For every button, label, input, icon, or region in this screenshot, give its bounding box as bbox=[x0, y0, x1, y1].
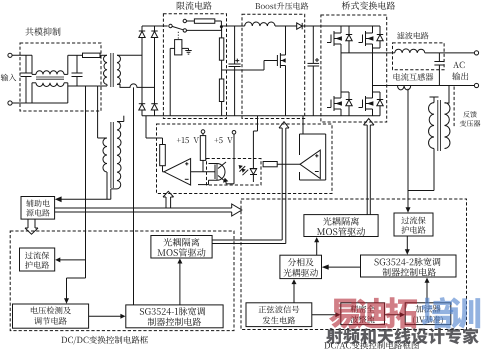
diode D (bridge bottom, x=154.5) bbox=[151, 103, 157, 105]
resistor R4 (divider bottom) bbox=[221, 60, 223, 79]
watermark 培训 bbox=[422, 297, 453, 328]
box SG3524-1 bbox=[126, 305, 223, 328]
wire resistor to transformer bbox=[100, 54, 107, 56]
resistor R6 bbox=[202, 133, 204, 135]
bridge right leg bbox=[372, 26, 374, 33]
capacitor C4 (boost output, polarized) bbox=[312, 26, 314, 63]
arrow 精密 to 加法器 bbox=[385, 314, 402, 316]
filter dashed box bbox=[393, 43, 445, 70]
T2 primary bottom lead bbox=[106, 172, 108, 199]
transformer T2 primary (aux) bbox=[98, 137, 107, 139]
current transformer CT1 bbox=[398, 86, 411, 90]
diode D5 (boost) bbox=[297, 23, 303, 29]
resistor R5 bbox=[145, 116, 147, 138]
bridge right mid node to output bbox=[373, 85, 475, 87]
box 分相及光耦驱动 bbox=[280, 255, 322, 278]
resistor R7 bbox=[263, 162, 277, 167]
diode D6 (body) bbox=[346, 34, 352, 36]
watermark subtitle bbox=[326, 328, 479, 345]
capacitor C3 (boost input, polarized) bbox=[234, 26, 236, 64]
box 正弦波信号发生电路 bbox=[246, 303, 312, 327]
junction dot bbox=[220, 25, 223, 28]
hollow supply arrow (aux to DC/AC) bbox=[55, 207, 232, 209]
AC output terminal top bbox=[474, 51, 478, 55]
label: AC输出 bbox=[453, 62, 464, 68]
CT secondary line down bbox=[407, 89, 409, 210]
optocoupler dashed box bbox=[207, 159, 262, 186]
wire lower contact out bbox=[187, 29, 222, 31]
hollow arrow: MOS drive to boost bbox=[212, 239, 282, 241]
T2 secondary bbox=[117, 122, 121, 189]
capacitor C2 (X-cap right) bbox=[76, 55, 78, 73]
transistor Q5 (bridge MOSFET) bbox=[362, 100, 364, 108]
transistor Q2 (bridge MOSFET) bbox=[330, 35, 332, 43]
arrow 过流保护 to SG3524-2 bbox=[406, 236, 408, 252]
capacitor C5 (filter) bbox=[438, 53, 440, 62]
+15V terminal bbox=[201, 130, 205, 134]
label: DC/AC变换控制电路框图 bbox=[324, 341, 418, 350]
hollow arrow down from aux box bbox=[27, 219, 29, 228]
transistor Q4 (bridge MOSFET) bbox=[330, 100, 332, 108]
wire U2 to bus bbox=[302, 116, 304, 134]
ground symbol bbox=[182, 47, 189, 49]
box 过流保护电路 (DC/DC) bbox=[20, 248, 55, 271]
hollow arrow branch up into driver bbox=[165, 197, 167, 208]
switch upper contact bbox=[183, 19, 186, 22]
diode D (bridge top, x=154.5) bbox=[151, 30, 157, 32]
AC output terminal bottom bbox=[474, 83, 478, 87]
relay link dotted bbox=[177, 32, 179, 40]
arrow SG3524-1 to 光耦隔离 bbox=[179, 262, 181, 305]
box 电压检测及调节电路 bbox=[13, 304, 89, 328]
label: 滤波电路 bbox=[397, 32, 428, 39]
aux power supply box 辅助电源电路 bbox=[21, 197, 55, 220]
wire coil to bottom bus bbox=[170, 47, 174, 49]
diode D7 (body) bbox=[377, 34, 383, 36]
choke core bbox=[36, 76, 64, 78]
bridge dashed box bbox=[321, 15, 387, 122]
T2 core bbox=[110, 122, 112, 188]
hollow arrow: MOS drive to bridge bbox=[366, 125, 368, 215]
bridge left mid node to filter bbox=[341, 52, 395, 54]
DC bus voltage sense line bbox=[85, 86, 87, 278]
arrow 正弦波 to 分相及 bbox=[293, 282, 295, 303]
common-mode choke L1 bottom winding bbox=[31, 83, 33, 103]
DC/DC control dashed frame bbox=[10, 231, 234, 331]
wire to divider bbox=[221, 25, 244, 27]
wire top mid bbox=[68, 54, 83, 56]
label +15 V bbox=[177, 137, 199, 143]
transformer T1 primary winding bbox=[104, 55, 107, 84]
label: Boost升压电路 bbox=[255, 2, 308, 9]
T2 secondary bottom lead bbox=[111, 188, 117, 190]
arrow SG3524-2 to 分相及 bbox=[326, 266, 361, 268]
rectifier bridge right rail bbox=[154, 26, 156, 31]
box 光耦隔离MOS管驱动 (DC/AC) bbox=[304, 215, 378, 237]
T2 secondary top to bus bbox=[117, 121, 124, 123]
top DC bus bbox=[142, 25, 168, 27]
input terminal bottom bbox=[8, 101, 12, 105]
transistor Q3 (bridge MOSFET) bbox=[362, 35, 364, 43]
relay coil K1 bbox=[175, 40, 182, 55]
bottom DC bus bbox=[142, 115, 380, 117]
transistor Q6 (NPN, round envelope) bbox=[214, 165, 216, 180]
light arrows bbox=[240, 166, 246, 172]
relay changeover switch S1 bbox=[169, 24, 172, 27]
wire LED to bus bbox=[253, 130, 257, 132]
+5V terminal bbox=[232, 131, 236, 135]
box 光耦隔离MOS管驱动 (DC/DC) bbox=[151, 236, 212, 259]
resistor R3 (divider top) bbox=[221, 26, 223, 38]
wire secondary top to rectifier bbox=[117, 54, 142, 56]
label: 电流互感器 bbox=[394, 73, 434, 81]
comparator output to transistor bbox=[191, 171, 215, 173]
diode D (bridge top, x=142) bbox=[139, 30, 145, 32]
boost dashed box bbox=[242, 14, 305, 118]
DC/AC control dashed frame bbox=[241, 199, 467, 330]
label: DC/DC变换控制电路框 bbox=[61, 336, 148, 345]
op-amp U1 (comparator, apex left) bbox=[164, 159, 191, 186]
current-limit dashed box bbox=[163, 14, 226, 119]
transformer T1 core bbox=[110, 53, 112, 87]
wire choke right vertical bbox=[67, 83, 69, 103]
diode D (bridge bottom, x=142) bbox=[139, 103, 145, 105]
boost driver dashed box bbox=[157, 124, 333, 194]
box 加法器(1V基准) bbox=[405, 303, 451, 325]
transistor Q1 (boost MOSFET) bbox=[276, 55, 278, 66]
wire bottom input bbox=[12, 102, 68, 104]
resistor R2 (inrush limiting) bbox=[187, 20, 195, 22]
transformer T1 secondary winding bbox=[117, 55, 120, 84]
arrow 正弦波 to 精密 bbox=[312, 314, 337, 316]
wire top input bbox=[12, 54, 32, 56]
diode D9 (body) bbox=[377, 99, 383, 101]
wire secondary bottom to rectifier (hop over bus) bbox=[117, 84, 155, 88]
box SG3524-2 bbox=[361, 255, 457, 277]
feedback transformer T3 primary bbox=[430, 96, 439, 98]
inductor L2 (boost) bbox=[245, 22, 275, 26]
label: common-mode suppression 共模抑制 bbox=[25, 27, 60, 35]
T3 secondary bbox=[445, 103, 450, 149]
rectifier bridge left rail bbox=[141, 26, 143, 31]
capacitor C1 (X-cap left) bbox=[25, 55, 27, 73]
box 过流保护电路 (DC/AC) bbox=[394, 213, 433, 236]
LED (optocoupler) bbox=[252, 131, 254, 169]
feedback bus x=133.5 bbox=[133, 87, 135, 305]
watermark 易迪拓 bbox=[329, 299, 359, 329]
arrow 加法器 to SG3524-2 bbox=[426, 281, 428, 303]
op-amp U2 (comparator, apex left) bbox=[300, 150, 320, 178]
label: 反馈变压器 bbox=[463, 111, 477, 117]
label +5 V bbox=[214, 137, 232, 143]
label: 限流电路 bbox=[177, 1, 212, 9]
wire divider tap to boost gate bbox=[222, 69, 264, 71]
wire into aux supply box bbox=[57, 198, 111, 200]
label: 桥式变换电路 bbox=[342, 1, 395, 9]
bridge left leg bbox=[340, 26, 342, 33]
CM filter dashed box bbox=[20, 43, 101, 111]
arrow 电压检测 to SG3524-1 bbox=[89, 315, 123, 317]
T3 secondary bottom to junction bbox=[433, 149, 435, 191]
label: input 输入 bbox=[1, 74, 17, 81]
wire node down to aux transformer bbox=[97, 86, 99, 138]
node line y86 bbox=[68, 85, 98, 87]
box 精密全波整流 bbox=[341, 303, 385, 325]
input terminal top bbox=[8, 53, 12, 57]
dashed stub right of T3 bbox=[453, 87, 455, 129]
wire primary bottom to node bbox=[106, 84, 108, 86]
diode D8 (body) bbox=[346, 99, 352, 101]
arrow 分相及 to 光耦隔离 bbox=[316, 240, 318, 255]
branch to overcurrent box bbox=[59, 259, 86, 261]
T3 core bbox=[437, 100, 439, 151]
resistor R1 (series, top of CM box) bbox=[83, 53, 101, 57]
common-mode choke L1 top winding bbox=[31, 55, 33, 74]
inductor L3 (filter) bbox=[395, 49, 425, 53]
